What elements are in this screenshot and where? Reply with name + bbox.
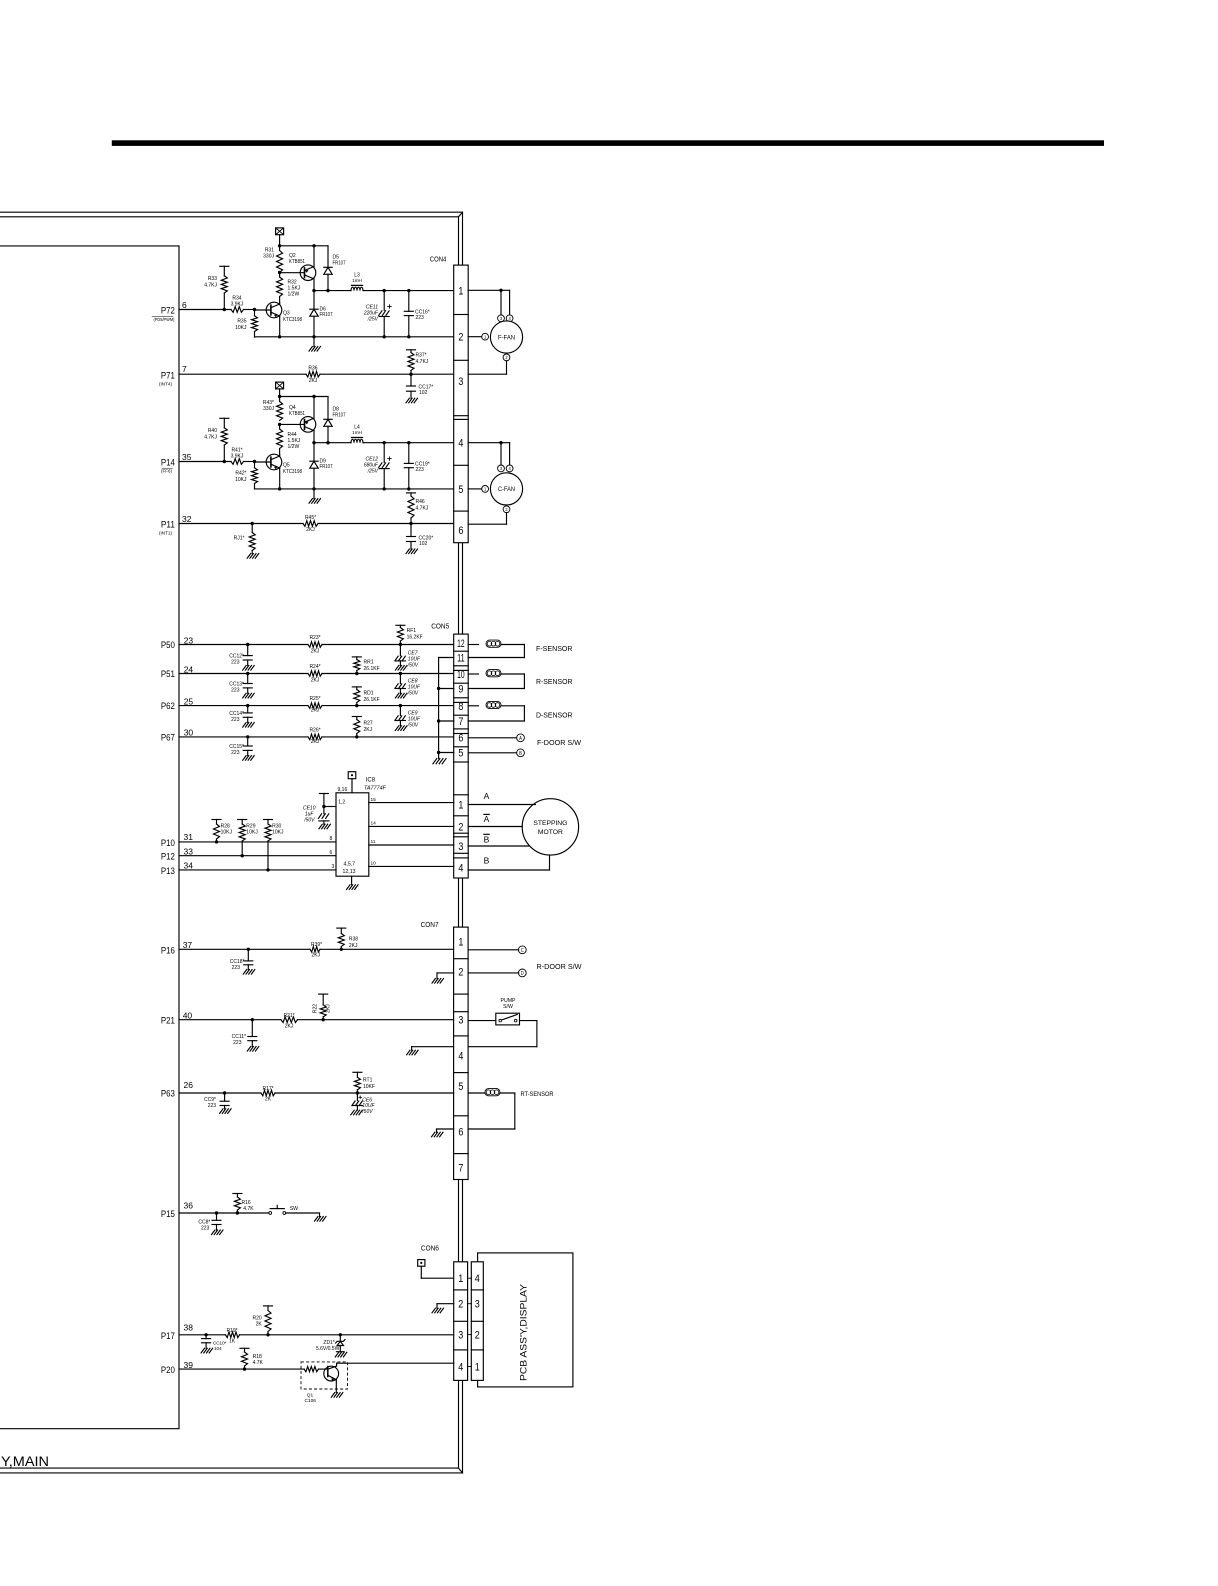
svg-text:4: 4 bbox=[508, 316, 511, 321]
ground at CON7 pin6 bbox=[437, 1128, 454, 1130]
terminal circled 3 F-fan bbox=[498, 315, 505, 322]
node P72/R33 bbox=[223, 308, 226, 311]
svg-text:4: 4 bbox=[458, 1051, 463, 1063]
title bar bbox=[112, 140, 1104, 146]
capacitor CC10* 104 bbox=[204, 1333, 207, 1336]
svg-text:P12: P12 bbox=[161, 852, 175, 862]
resistor R17* 2K bbox=[261, 1090, 275, 1096]
resistor R30 10KJ bbox=[264, 819, 273, 821]
svg-text:1,2: 1,2 bbox=[338, 800, 345, 806]
svg-text:32: 32 bbox=[182, 514, 192, 524]
IC8 pin 10 wire to CON5 pin4 bbox=[369, 865, 454, 867]
svg-text:/50V: /50V bbox=[407, 691, 419, 697]
node Q4 base bbox=[278, 423, 281, 426]
svg-text:4: 4 bbox=[458, 863, 463, 875]
svg-text:R35: R35 bbox=[237, 319, 246, 325]
svg-text:R22: R22 bbox=[313, 1004, 319, 1013]
node P14/R40 bbox=[223, 460, 226, 463]
supply symbol (crossed box) C-fan bbox=[276, 382, 284, 389]
wire CON4 pin4 to C-fan terminals bbox=[468, 442, 509, 444]
svg-text:FR107: FR107 bbox=[333, 413, 346, 419]
svg-text:1: 1 bbox=[484, 487, 487, 492]
wire P72 row bbox=[179, 309, 231, 311]
terminal circled 2 F-fan bbox=[503, 354, 510, 361]
ground bus left of CON5 bbox=[439, 657, 454, 659]
svg-text:4.7K: 4.7K bbox=[253, 1360, 264, 1366]
capacitor CC8* 223 bbox=[215, 1211, 218, 1214]
wire P16 row to CON7 pin1 bbox=[179, 948, 310, 950]
svg-text:6: 6 bbox=[458, 733, 463, 745]
svg-text:6: 6 bbox=[330, 850, 333, 856]
svg-text:P71: P71 bbox=[161, 370, 175, 380]
resistor R25* 2KJ bbox=[308, 703, 322, 709]
svg-text:1: 1 bbox=[475, 1362, 480, 1374]
svg-text:12: 12 bbox=[457, 638, 465, 650]
svg-text:R39*: R39* bbox=[311, 942, 322, 948]
svg-text:38: 38 bbox=[184, 1322, 194, 1332]
svg-text:R21*: R21* bbox=[283, 1013, 294, 1019]
terminal circled 3 C-fan bbox=[498, 465, 505, 472]
svg-text:3.9KJ: 3.9KJ bbox=[231, 453, 244, 459]
resistor RT1 10KF bbox=[353, 1071, 362, 1073]
wire CON7 pin2 to R-door switch D bbox=[468, 972, 519, 974]
resistor R34 3.9KJ bbox=[231, 307, 244, 313]
svg-text:8: 8 bbox=[330, 836, 333, 842]
resistor R45* 2KJ bbox=[303, 521, 318, 527]
svg-text:102: 102 bbox=[419, 390, 428, 396]
svg-text:(INT4): (INT4) bbox=[159, 381, 173, 386]
svg-text:FR107: FR107 bbox=[333, 261, 346, 267]
capacitor CE8 10UF/50V (electrolytic) bbox=[399, 672, 402, 675]
wire phase A-bar bbox=[468, 826, 522, 828]
svg-text:F-DOOR S/W: F-DOOR S/W bbox=[537, 738, 581, 747]
resistor R22 2KJ bbox=[319, 993, 328, 995]
supply symbol (crossed box) F-fan bbox=[276, 228, 284, 235]
svg-text:CON4: CON4 bbox=[430, 255, 447, 264]
svg-text:C: C bbox=[521, 948, 524, 954]
resistor R37* 4.7KJ bbox=[407, 349, 416, 351]
resistor R18 4.7K bbox=[240, 1347, 249, 1349]
svg-text:R19*: R19* bbox=[226, 1328, 237, 1334]
svg-text:36: 36 bbox=[184, 1201, 194, 1211]
IC U8 TA7774F bbox=[336, 793, 369, 876]
svg-text:P50: P50 bbox=[161, 640, 175, 650]
svg-text:KTC3198: KTC3198 bbox=[283, 317, 302, 323]
svg-text:2KJ: 2KJ bbox=[309, 378, 318, 384]
svg-text:223: 223 bbox=[231, 750, 240, 756]
svg-text:2KJ: 2KJ bbox=[311, 739, 320, 745]
svg-text:40: 40 bbox=[183, 1010, 193, 1020]
svg-text:1mH: 1mH bbox=[352, 278, 362, 283]
svg-text:R37*: R37* bbox=[416, 353, 427, 359]
svg-text:4.7KJ: 4.7KJ bbox=[204, 283, 217, 289]
capacitor CE10 1uF/50V at IC8 bbox=[319, 793, 328, 795]
wire supply rail C-fan bbox=[280, 396, 328, 398]
resistor R32 1.5KJ 1/2W bbox=[279, 273, 281, 278]
svg-text:223: 223 bbox=[416, 467, 425, 473]
switch SW (push button) bbox=[269, 1212, 272, 1215]
svg-text:4.7K: 4.7K bbox=[243, 1206, 254, 1212]
wire F-fan terminal 2 to CON4 pin3 bbox=[506, 361, 508, 374]
wire CON4 pin5 to C-fan terminal 1 bbox=[468, 488, 481, 490]
IC8 pin 11 wire to CON5 pin3 bbox=[369, 844, 454, 846]
capacitor CC19* 223 bbox=[408, 443, 410, 464]
switch F-DOOR S/W terminal B bbox=[468, 752, 516, 754]
wire Q1 collector to CON6 pin4 bbox=[337, 1362, 454, 1364]
svg-text:26.1KF: 26.1KF bbox=[364, 666, 380, 672]
svg-text:A: A bbox=[519, 736, 522, 742]
svg-text:/50V: /50V bbox=[407, 723, 419, 729]
svg-text:2KJ: 2KJ bbox=[311, 678, 320, 684]
svg-text:Y,MAIN: Y,MAIN bbox=[1, 1454, 49, 1469]
svg-text:F-FAN: F-FAN bbox=[498, 334, 515, 341]
wire CON4 pin2 to F-fan terminal 1 bbox=[468, 336, 481, 338]
svg-text:223: 223 bbox=[201, 1225, 210, 1231]
node rail/CC16 bbox=[407, 289, 410, 292]
svg-text:1: 1 bbox=[484, 334, 487, 339]
capacitor CE9 10UF/50V (electrolytic) bbox=[399, 704, 402, 707]
svg-text:R27: R27 bbox=[364, 720, 373, 726]
svg-text:104: 104 bbox=[214, 1346, 222, 1351]
svg-text:(FF6): (FF6) bbox=[161, 469, 173, 474]
svg-text:6: 6 bbox=[458, 1127, 463, 1139]
wire P51 row bbox=[179, 673, 308, 675]
svg-text:11: 11 bbox=[457, 653, 465, 665]
svg-text:25: 25 bbox=[184, 696, 194, 706]
svg-text:330J: 330J bbox=[263, 406, 274, 412]
connector CON5 bbox=[454, 634, 469, 878]
capacitor CC14* 223 bbox=[246, 704, 249, 707]
connector CON6 left column bbox=[454, 1262, 468, 1381]
svg-text:MOTOR: MOTOR bbox=[538, 829, 563, 836]
ground below D6 bbox=[313, 337, 315, 347]
node emitterC/bottom bbox=[278, 487, 281, 490]
connector CON7 bbox=[454, 927, 469, 1179]
svg-text:R40: R40 bbox=[208, 428, 217, 434]
svg-text:4.7KJ: 4.7KJ bbox=[204, 435, 217, 441]
resistor R26* 2KJ bbox=[308, 734, 322, 740]
svg-text:10: 10 bbox=[371, 861, 377, 867]
svg-text:4: 4 bbox=[458, 438, 463, 450]
svg-text:33: 33 bbox=[184, 847, 194, 857]
diode D6 FR107 bbox=[313, 291, 315, 310]
ground below IC8 bbox=[351, 876, 353, 885]
node P62/RD1 bbox=[355, 704, 358, 707]
svg-text:3: 3 bbox=[500, 466, 503, 471]
motor STEPPING MOTOR bbox=[522, 799, 578, 855]
svg-text:R-SENSOR: R-SENSOR bbox=[536, 677, 573, 686]
wire P13 row to IC8 pin 3 bbox=[179, 869, 336, 871]
node P11/RJ1 bbox=[251, 522, 254, 525]
svg-text:RR1: RR1 bbox=[364, 659, 374, 665]
transistor Q1 C106 with base resistor (dashed box) bbox=[301, 1362, 348, 1389]
svg-text:Q1: Q1 bbox=[307, 1393, 314, 1399]
thermistor RT-SENSOR bbox=[468, 1092, 485, 1094]
svg-text:16.2KF: 16.2KF bbox=[407, 634, 423, 640]
capacitor CC20* 102 bbox=[410, 524, 412, 537]
svg-text:12,13: 12,13 bbox=[343, 869, 356, 875]
svg-text:9,16: 9,16 bbox=[338, 787, 348, 793]
resistor RJ1* (pulldown) bbox=[251, 524, 253, 533]
svg-text:5: 5 bbox=[458, 484, 463, 496]
node supply/emitter junction C bbox=[312, 395, 315, 398]
power symbol above IC8 bbox=[348, 772, 356, 779]
svg-text:(PD5/PWM): (PD5/PWM) bbox=[154, 317, 176, 322]
svg-text:39: 39 bbox=[184, 1360, 194, 1370]
svg-text:P13: P13 bbox=[161, 866, 175, 876]
terminal circled 1 F-fan bbox=[482, 333, 489, 340]
svg-text:223: 223 bbox=[231, 660, 240, 666]
wire bottom row to CON4 pin5 bbox=[255, 488, 454, 490]
svg-text:1/2W: 1/2W bbox=[288, 292, 300, 298]
svg-text:223: 223 bbox=[231, 717, 240, 723]
svg-text:R42*: R42* bbox=[235, 471, 246, 477]
resistor R27 2KJ bbox=[352, 716, 361, 718]
resistor R39* 2KJ bbox=[310, 947, 320, 953]
svg-text:1: 1 bbox=[458, 937, 463, 949]
svg-text:R17*: R17* bbox=[262, 1086, 273, 1092]
svg-text:10KF: 10KF bbox=[363, 1084, 375, 1090]
svg-text:24: 24 bbox=[184, 664, 194, 674]
node supply/emitter junction bbox=[312, 244, 315, 247]
svg-text:PCB ASS'Y,DISPLAY: PCB ASS'Y,DISPLAY bbox=[518, 1283, 529, 1381]
wire phase A bbox=[468, 804, 535, 806]
svg-text:R45*: R45* bbox=[305, 515, 316, 521]
ground below D9 bbox=[313, 489, 315, 499]
svg-text:34: 34 bbox=[184, 860, 194, 870]
wire P14 row bbox=[179, 461, 231, 463]
thermistor F-SENSOR bbox=[468, 644, 478, 646]
svg-text:2: 2 bbox=[458, 332, 463, 344]
svg-text:223: 223 bbox=[208, 1103, 217, 1109]
capacitor CE11 220uF/25V (electrolytic) bbox=[383, 291, 385, 311]
resistor R16 4.7K bbox=[233, 1193, 242, 1195]
svg-text:7: 7 bbox=[458, 1163, 463, 1175]
transistor Q2 KTB851 (PNP) bbox=[300, 265, 316, 281]
svg-text:/50V: /50V bbox=[407, 663, 419, 669]
svg-text:P14: P14 bbox=[161, 458, 175, 468]
svg-text:35: 35 bbox=[182, 452, 192, 462]
svg-text:F-SENSOR: F-SENSOR bbox=[536, 644, 573, 653]
wire P67 row bbox=[179, 736, 308, 738]
resistor R40 4.7KJ bbox=[220, 417, 229, 419]
svg-text:102: 102 bbox=[419, 541, 428, 547]
svg-text:10KJ: 10KJ bbox=[235, 477, 247, 483]
node D5/rail bbox=[326, 289, 329, 292]
svg-text:23: 23 bbox=[184, 635, 194, 645]
svg-text:D-SENSOR: D-SENSOR bbox=[536, 710, 573, 719]
wire P50 row bbox=[179, 644, 308, 646]
svg-text:5.6V/0.5W: 5.6V/0.5W bbox=[316, 1346, 340, 1352]
node rail/CC19 bbox=[407, 441, 410, 444]
node supply/R43 bbox=[278, 395, 281, 398]
wire CON7 pin1 to R-door switch C bbox=[468, 949, 519, 951]
svg-text:CON7: CON7 bbox=[421, 920, 439, 929]
svg-text:B: B bbox=[484, 834, 490, 844]
node rail/CE12 bbox=[383, 441, 386, 444]
svg-text:P62: P62 bbox=[161, 701, 175, 711]
svg-text:3: 3 bbox=[458, 841, 463, 853]
svg-text:11: 11 bbox=[371, 839, 376, 845]
svg-text:4.7KJ: 4.7KJ bbox=[416, 506, 429, 512]
svg-text:RD1: RD1 bbox=[364, 690, 374, 696]
resistor R20 2K bbox=[264, 1305, 273, 1307]
wire P17 row to CON6 pin3 bbox=[179, 1334, 226, 1336]
svg-text:5: 5 bbox=[458, 748, 463, 760]
svg-text:2KJ: 2KJ bbox=[311, 708, 320, 714]
connector CON4 bbox=[454, 265, 469, 543]
ground at CON7 pin4 bbox=[412, 1046, 454, 1048]
IC8 pin 15 wire to CON5 pin1 bbox=[369, 802, 454, 804]
resistor R42* 10KJ bbox=[254, 462, 256, 468]
node P71/R37 bbox=[409, 373, 412, 376]
ground at CON7 pin2 bbox=[437, 972, 454, 974]
wire P11 row to CON4 pin6 bbox=[179, 523, 303, 525]
svg-text:223: 223 bbox=[416, 315, 425, 321]
wire P71 row to CON4 pin3 bbox=[179, 373, 306, 375]
svg-text:RT1: RT1 bbox=[363, 1078, 373, 1084]
svg-text:R24*: R24* bbox=[309, 664, 320, 670]
node rail/CE11 bbox=[383, 289, 386, 292]
box PCB ASS'Y,DISPLAY bbox=[478, 1253, 573, 1387]
svg-text:KTC3198: KTC3198 bbox=[283, 469, 302, 475]
svg-text:1mH: 1mH bbox=[352, 430, 362, 435]
svg-text:6: 6 bbox=[182, 300, 187, 310]
inner box microcomputer bbox=[0, 246, 179, 1429]
wire CON4 pin1 to F-fan terminals bbox=[468, 289, 509, 291]
svg-text:P16: P16 bbox=[161, 945, 175, 955]
svg-text:S/W: S/W bbox=[503, 1004, 513, 1010]
transistor Q5 KTC3198 (NPN) bbox=[266, 454, 282, 470]
IC8 pin 14 wire to CON5 pin2 bbox=[369, 825, 454, 827]
switch F-DOOR S/W terminal A bbox=[468, 737, 516, 739]
svg-text:/25V: /25V bbox=[367, 317, 379, 323]
node P50/RF1/CE7 bbox=[399, 643, 402, 646]
svg-text:CON6: CON6 bbox=[421, 1244, 439, 1253]
svg-text:A: A bbox=[484, 814, 490, 824]
svg-text:3: 3 bbox=[500, 316, 503, 321]
terminal circled 4 C-fan bbox=[506, 465, 513, 472]
thermistor R-SENSOR bbox=[468, 673, 478, 675]
node P61/RR1 bbox=[355, 672, 358, 675]
wire C-fan terminal 2 to CON4 pin6 bbox=[506, 513, 508, 525]
resistor R44 1.5KJ 1/2W bbox=[279, 424, 281, 429]
svg-text:/50V: /50V bbox=[361, 1109, 373, 1115]
node emitter/bottom bbox=[278, 335, 281, 338]
svg-text:STEPPING: STEPPING bbox=[533, 820, 567, 827]
wire collector rail to CON4 pin4 bbox=[314, 442, 351, 444]
svg-text:37: 37 bbox=[183, 940, 193, 950]
svg-text:7: 7 bbox=[182, 364, 187, 374]
svg-text:4: 4 bbox=[458, 1362, 463, 1374]
transistor Q4 KTB851 (PNP) bbox=[300, 417, 316, 433]
svg-text:SW: SW bbox=[290, 1206, 298, 1212]
svg-text:3: 3 bbox=[458, 1015, 463, 1027]
svg-text:Q3: Q3 bbox=[283, 311, 290, 317]
svg-text:2KJ: 2KJ bbox=[285, 1024, 294, 1030]
wire pump switch return to CON7 pin4 bbox=[520, 1020, 537, 1022]
wire supply rail F-fan bbox=[280, 245, 328, 247]
resistor R21* 2KJ bbox=[281, 1017, 298, 1023]
svg-text:P51: P51 bbox=[161, 669, 175, 679]
svg-text:/25V: /25V bbox=[367, 469, 379, 475]
node collector/D6 bbox=[312, 289, 315, 292]
svg-text:4,5,7: 4,5,7 bbox=[344, 861, 356, 867]
capacitor CC12* 223 bbox=[246, 643, 249, 646]
resistor R36 2KJ bbox=[306, 371, 320, 377]
wire phase B-bar bbox=[468, 845, 529, 847]
node Q2 base bbox=[278, 271, 281, 274]
diode D9 FR107 bbox=[313, 443, 315, 462]
svg-text:P17: P17 bbox=[161, 1331, 175, 1341]
svg-text:10KJ: 10KJ bbox=[235, 325, 247, 331]
resistor R28 10KJ bbox=[212, 819, 221, 821]
motor F-FAN bbox=[490, 321, 522, 353]
capacitor CC17* 102 bbox=[410, 374, 412, 386]
thermistor D-SENSOR bbox=[468, 705, 478, 707]
svg-text:3: 3 bbox=[458, 1330, 463, 1342]
node P72/R35/Q3 base bbox=[253, 308, 256, 311]
svg-text:2K: 2K bbox=[256, 1322, 263, 1328]
svg-text:2KJ: 2KJ bbox=[312, 953, 321, 959]
ground at CON6 pin2 bbox=[437, 1303, 454, 1305]
power symbol at CON6 pin1 bbox=[418, 1260, 425, 1267]
resistor RR1 26.1KF bbox=[352, 656, 361, 658]
CON6 column link stubs bbox=[468, 1277, 472, 1279]
node D9/ground bbox=[312, 487, 315, 490]
capacitor CC13* 223 bbox=[246, 672, 249, 675]
terminal circled 1 C-fan bbox=[482, 486, 489, 493]
svg-text:3: 3 bbox=[458, 376, 463, 388]
svg-text:RF1: RF1 bbox=[407, 628, 417, 634]
svg-text:3: 3 bbox=[475, 1299, 480, 1311]
connector CON6 right column bbox=[471, 1262, 483, 1381]
svg-text:26.1KF: 26.1KF bbox=[364, 697, 380, 703]
svg-text:2: 2 bbox=[458, 822, 463, 834]
wire P20 row bbox=[179, 1368, 245, 1370]
svg-text:Q5: Q5 bbox=[283, 463, 290, 469]
svg-text:P67: P67 bbox=[161, 733, 175, 743]
svg-text:A: A bbox=[484, 791, 490, 801]
svg-text:R46: R46 bbox=[416, 499, 425, 505]
svg-text:TA7774F: TA7774F bbox=[364, 785, 387, 791]
svg-text:IC8: IC8 bbox=[366, 778, 376, 784]
svg-text:/50V: /50V bbox=[303, 818, 315, 824]
terminal circled 2 C-fan bbox=[503, 506, 510, 513]
svg-text:R36: R36 bbox=[308, 365, 317, 371]
svg-text:P63: P63 bbox=[161, 1089, 175, 1099]
svg-text:26: 26 bbox=[184, 1080, 194, 1090]
motor C-FAN bbox=[490, 473, 522, 505]
capacitor CC15* 223 bbox=[246, 735, 249, 738]
capacitor CE12 680uF/25V (electrolytic) bbox=[383, 443, 385, 463]
node collector/D9 bbox=[312, 441, 315, 444]
svg-text:P11: P11 bbox=[161, 520, 175, 530]
wire P21 row to CON7 pin3 bbox=[179, 1019, 281, 1021]
node CC16/bottom bbox=[407, 335, 410, 338]
wire P12 row to IC8 pin 6 bbox=[179, 855, 336, 857]
node P57/R27 bbox=[355, 735, 358, 738]
node CC19/bottom bbox=[407, 487, 410, 490]
svg-text:2: 2 bbox=[458, 1299, 463, 1311]
svg-text:4: 4 bbox=[475, 1273, 480, 1285]
svg-text:14: 14 bbox=[371, 821, 377, 827]
svg-text:(INT1): (INT1) bbox=[159, 531, 173, 536]
resistor R41* 3.9KJ bbox=[231, 459, 244, 465]
node CE12/bottom bbox=[383, 487, 386, 490]
capacitor CC9* 223 bbox=[223, 1091, 226, 1094]
svg-text:B: B bbox=[519, 751, 522, 757]
